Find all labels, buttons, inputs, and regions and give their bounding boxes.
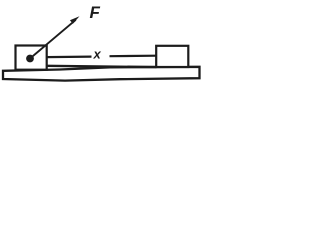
block A (left) — [16, 46, 47, 70]
block B (right) — [156, 46, 188, 67]
distance line x (left segment) — [47, 55, 92, 58]
force arrow F — [30, 16, 80, 58]
plank — [3, 67, 200, 81]
distance line x (right segment) — [110, 55, 157, 58]
string between blocks — [47, 66, 157, 67]
attachment dot — [26, 55, 34, 63]
svg-text:x: x — [93, 47, 102, 62]
svg-text:F: F — [90, 3, 101, 22]
